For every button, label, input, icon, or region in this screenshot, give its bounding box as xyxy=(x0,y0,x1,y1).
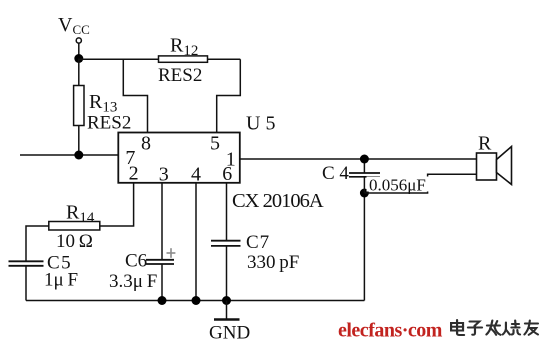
power terminal Vcc xyxy=(58,14,90,43)
wire bottom ground rail xyxy=(26,300,364,302)
svg-text:C 4: C 4 xyxy=(322,163,349,184)
svg-text:8: 8 xyxy=(141,133,151,155)
svg-text:0.056μF: 0.056μF xyxy=(369,176,426,195)
wire right step down to pin 5 xyxy=(217,59,241,132)
speaker R cone xyxy=(497,147,512,185)
wire Vcc junction down to R13 xyxy=(78,59,80,86)
svg-text:GND: GND xyxy=(209,323,250,344)
svg-text:3.3μ F: 3.3μ F xyxy=(109,271,157,292)
svg-text:3: 3 xyxy=(159,164,169,186)
wire pin 2 down and left to R14 xyxy=(100,183,134,226)
wire C5 to bottom rail xyxy=(25,266,27,301)
speaker R body xyxy=(477,153,497,180)
node junction pin6 rail xyxy=(222,296,231,305)
char 发 xyxy=(486,321,500,335)
node junction R13 and pin7 wire xyxy=(74,151,83,160)
char 友 xyxy=(524,321,538,335)
node C4 top junction xyxy=(360,155,369,164)
svg-text:6: 6 xyxy=(222,163,232,185)
wire pin 3 down to C6 xyxy=(161,183,163,260)
capacitor C7 xyxy=(211,241,241,246)
node Vcc junction xyxy=(74,54,83,63)
node junction pin3 rail xyxy=(158,296,167,305)
wire Vcc rail to R12 left xyxy=(79,58,159,60)
svg-text:C7: C7 xyxy=(246,232,270,253)
svg-text:CX 20106A: CX 20106A xyxy=(232,190,324,212)
node C4 bottom junction xyxy=(360,189,369,198)
svg-text:4: 4 xyxy=(191,164,201,186)
wire pin 1 to speaker xyxy=(240,158,477,160)
svg-text:2: 2 xyxy=(129,163,139,185)
svg-text:1μ F: 1μ F xyxy=(44,270,78,291)
resistor R14 xyxy=(49,222,100,231)
wire R13 bottom to pin7 rail xyxy=(78,126,80,156)
wire R14 left to C5 xyxy=(26,226,49,261)
char 烧 xyxy=(503,321,520,335)
svg-text:elecfans·com: elecfans·com xyxy=(338,320,443,342)
wire R12 right to corner xyxy=(208,58,241,60)
svg-text:RES2: RES2 xyxy=(158,65,202,86)
svg-text:5: 5 xyxy=(210,133,220,155)
svg-text:RES2: RES2 xyxy=(87,113,131,134)
wire input to pin 7 xyxy=(20,154,118,156)
node junction pin4 rail xyxy=(192,296,201,305)
capacitor C4 xyxy=(349,159,380,193)
char 电 xyxy=(451,320,464,335)
wire C7 to bottom rail xyxy=(226,246,228,301)
svg-text:C6: C6 xyxy=(125,251,147,272)
wire pin 4 down to bottom rail xyxy=(195,183,197,301)
svg-text:U 5: U 5 xyxy=(246,113,275,135)
ground xyxy=(209,301,250,344)
polarity plus sign C6 xyxy=(167,248,176,258)
wire left step down to pin 8 xyxy=(123,59,147,132)
char 子 xyxy=(468,322,482,335)
svg-text:10 Ω: 10 Ω xyxy=(56,231,93,252)
resistor R12 xyxy=(159,56,208,62)
capacitor C6 xyxy=(146,260,174,264)
wire Vcc terminal to junction xyxy=(78,43,80,58)
value label 0.056uF xyxy=(367,176,429,195)
svg-text:R: R xyxy=(478,133,492,155)
svg-text:330 pF: 330 pF xyxy=(247,252,299,273)
wire C4 bottom to speaker xyxy=(364,174,476,193)
capacitor C5 xyxy=(9,261,44,266)
wire C6 to bottom rail xyxy=(161,264,163,301)
wire pin 6 down to C7 xyxy=(226,183,228,241)
watermark chinese 电子发烧友 xyxy=(451,320,538,335)
wire right rail up to C4 xyxy=(363,193,365,301)
op-amp U5 CX20106A body xyxy=(118,133,240,183)
resistor R13 xyxy=(74,86,84,126)
